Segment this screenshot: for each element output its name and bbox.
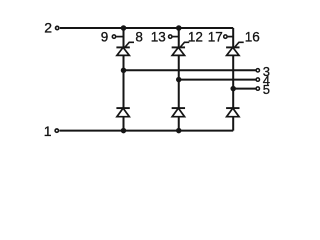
svg-text:2: 2 (44, 20, 52, 36)
terminal 17 (aux cathode of thyristor V3) (224, 35, 227, 38)
node junction branch / phase 3 line (121, 68, 127, 74)
diode D1 cathode bar (116, 107, 129, 109)
wire terminal 13 tap (172, 36, 178, 38)
thyristor V1 cathode bar (116, 46, 129, 48)
wire top DC bus (60, 27, 233, 29)
thyristor V3 cathode bar (226, 46, 239, 48)
wire AC phase line to terminal 3 (124, 69, 256, 71)
svg-text:1: 1 (44, 123, 52, 139)
diode D1 triangle (117, 108, 129, 117)
terminal 13 (aux cathode of thyristor V2) (169, 35, 172, 38)
wire AC phase line to terminal 5 (233, 88, 256, 90)
svg-text:5: 5 (263, 82, 270, 97)
svg-text:9: 9 (101, 30, 109, 45)
thyristor V2 triangle (172, 47, 184, 55)
svg-text:13: 13 (151, 30, 166, 45)
terminal 2 (56, 26, 59, 29)
wire AC phase line to terminal 4 (179, 79, 256, 81)
svg-text:17: 17 (208, 30, 223, 45)
diode D3 cathode bar (226, 107, 239, 109)
terminal 1 (55, 129, 58, 132)
node junction branch / phase 4 line (176, 77, 182, 83)
node junction branch / phase 5 line (230, 86, 236, 92)
node junction top bus / branch 2 (176, 25, 182, 31)
thyristor V3 triangle (227, 47, 239, 55)
wire branch 3 vertical (232, 28, 234, 131)
wire bottom DC bus (60, 130, 234, 132)
terminal 4 (256, 78, 259, 81)
thyristor V2 cathode bar (172, 46, 185, 48)
wire branch 2 vertical (178, 28, 180, 131)
diode D2 cathode bar (172, 107, 185, 109)
terminal 3 (256, 69, 259, 72)
terminal 9 (aux cathode of thyristor V1) (112, 35, 115, 38)
thyristor V2 gate lead (180, 42, 189, 47)
wire branch 1 vertical (123, 28, 125, 131)
thyristor V1 triangle (117, 47, 129, 55)
node junction bottom bus / branch 2 (176, 128, 182, 134)
thyristor V1 gate lead (125, 42, 134, 47)
node junction top bus / branch 1 (121, 25, 127, 31)
svg-text:8: 8 (135, 30, 143, 45)
node junction bottom bus / branch 1 (121, 128, 127, 134)
wire terminal 9 tap (116, 36, 123, 38)
wire terminal 17 tap (228, 36, 234, 38)
svg-text:12: 12 (188, 30, 203, 45)
thyristor V3 gate lead (235, 42, 244, 47)
diode D3 triangle (227, 108, 239, 117)
diode D2 triangle (172, 108, 184, 117)
svg-text:16: 16 (245, 30, 260, 45)
terminal 5 (256, 87, 259, 90)
